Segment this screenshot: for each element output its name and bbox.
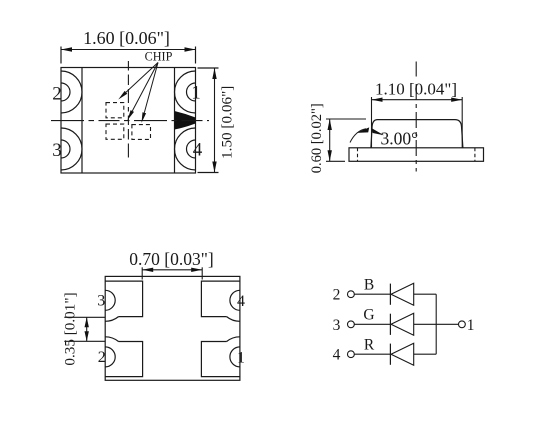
dim 1.10 extension lines (merge with dome slopes)	[371, 97, 373, 148]
pad 3 outer arc	[61, 128, 82, 170]
wire diode B to bus	[414, 293, 437, 295]
right pad inner edge line	[174, 68, 176, 174]
svg-text:1: 1	[191, 82, 201, 103]
pin 4 terminal circle	[348, 351, 355, 358]
svg-text:0.70 [0.03"]: 0.70 [0.03"]	[129, 249, 213, 269]
svg-text:CHIP: CHIP	[145, 50, 173, 64]
dim 0.35 line with arrows	[86, 317, 88, 341]
svg-text:1: 1	[237, 349, 245, 366]
svg-text:3: 3	[97, 293, 105, 310]
chip arrow 1	[126, 63, 158, 93]
angle arrowhead right	[372, 128, 384, 135]
wire pin3 to diode G	[354, 323, 390, 325]
diode G cathode bar	[389, 314, 391, 335]
dim 0.35 extension lines	[64, 316, 105, 318]
svg-text:0.60 [0.02"]: 0.60 [0.02"]	[309, 103, 325, 173]
pad 2 (bottom-left)	[105, 342, 142, 377]
pad 4 (top-right)	[201, 281, 240, 317]
svg-text:0.35 [0.01"]: 0.35 [0.01"]	[62, 292, 79, 365]
pad 1 outer arc	[175, 71, 196, 113]
svg-text:R: R	[364, 337, 375, 354]
wire pin2 to diode B	[354, 293, 390, 295]
dim 0.70 line with outward arrows	[142, 269, 202, 271]
dim 1.60 line	[61, 49, 196, 51]
chip arrow 3	[144, 63, 158, 113]
pad 3 (top-left)	[105, 281, 142, 317]
pin 3 terminal circle	[348, 321, 355, 328]
svg-text:1: 1	[467, 317, 475, 334]
pin 1 terminal circle	[459, 321, 466, 328]
chip square lower-left	[106, 124, 124, 139]
wire diode R to bus	[414, 353, 437, 355]
dim 1.50 extension lines	[198, 67, 219, 69]
diode G triangle	[391, 313, 414, 335]
chip square upper	[106, 103, 124, 118]
angle arrowhead left	[356, 127, 369, 132]
dim 0.60 line	[329, 119, 331, 161]
svg-text:4: 4	[237, 293, 245, 310]
pad 4 outer arc	[175, 128, 196, 170]
angle leader arc	[350, 129, 366, 143]
pad 2 outer arc	[61, 71, 82, 113]
diode R cathode bar	[389, 344, 391, 365]
body outline	[105, 276, 240, 380]
svg-text:3.00°: 3.00°	[381, 128, 419, 148]
svg-text:2: 2	[52, 83, 62, 104]
package body outline	[61, 68, 196, 174]
dome body	[371, 120, 463, 148]
svg-text:2: 2	[333, 287, 341, 304]
pad 4 inner arc	[187, 140, 196, 158]
dim 0.70 extension lines	[141, 267, 143, 279]
diode R triangle	[391, 343, 414, 365]
common bus wire	[435, 294, 437, 354]
svg-text:4: 4	[193, 139, 203, 160]
diode B triangle	[391, 283, 414, 305]
svg-text:B: B	[364, 277, 374, 294]
vertical centerline	[127, 61, 129, 158]
dim 1.60 extension lines	[60, 47, 62, 64]
pad 3 inner arc	[61, 140, 70, 158]
svg-text:1.60 [0.06"]: 1.60 [0.06"]	[83, 28, 170, 48]
vertical centerline of side view	[415, 62, 417, 77]
pin 2 terminal circle	[348, 291, 355, 298]
dim 1.10 line	[372, 99, 463, 101]
pad 2 inner arc	[61, 83, 70, 101]
svg-text:1.50 [0.06"]: 1.50 [0.06"]	[219, 86, 236, 159]
wire diode G to pin 1	[414, 323, 459, 325]
chip arrow 2	[132, 63, 158, 112]
svg-text:3: 3	[52, 140, 62, 161]
base hidden line right	[474, 148, 476, 162]
svg-text:4: 4	[333, 347, 341, 364]
pad 1 (bottom-right)	[201, 342, 240, 377]
base substrate	[349, 148, 484, 162]
dim 0.60 extension lines	[326, 118, 366, 120]
base hidden line left	[357, 148, 359, 162]
svg-text:G: G	[363, 307, 374, 324]
horizontal centerline	[51, 120, 209, 122]
cathode polarity mark (black)	[175, 111, 196, 130]
dim 1.50 line	[214, 68, 216, 173]
diode B cathode bar	[389, 284, 391, 305]
svg-text:1.10 [0.04"]: 1.10 [0.04"]	[375, 80, 457, 99]
svg-text:3: 3	[333, 317, 341, 334]
left pad inner edge line	[81, 68, 83, 174]
pad 1 inner arc	[187, 83, 196, 101]
chip square lower-right	[132, 125, 151, 140]
wire pin4 to diode R	[354, 353, 390, 355]
svg-text:2: 2	[98, 349, 106, 366]
